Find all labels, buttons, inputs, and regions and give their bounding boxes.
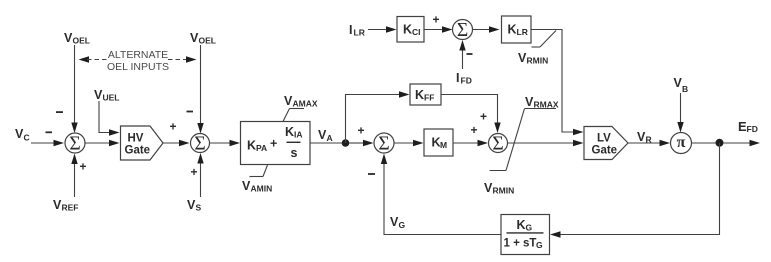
svg-text:Σ: Σ: [194, 133, 205, 154]
svg-text:OEL: OEL: [73, 36, 90, 46]
wire node B to EFD output: [723, 140, 760, 146]
svg-text:G: G: [399, 220, 406, 230]
svg-text:K: K: [403, 23, 412, 37]
wire IFD to S5: [459, 40, 465, 69]
svg-text:RMIN: RMIN: [493, 186, 515, 196]
svg-text:+: +: [357, 124, 364, 138]
svg-text:LV: LV: [597, 133, 611, 145]
svg-text:CI: CI: [412, 27, 421, 37]
minus sign at S3 bottom input: [368, 173, 375, 175]
svg-text:K: K: [415, 88, 424, 102]
wire KM to S4: [453, 140, 488, 146]
dashed alternate-inputs arrow: [79, 56, 197, 62]
svg-text:M: M: [440, 140, 447, 150]
multiplier PI: [671, 133, 692, 154]
wire S4 to LV gate: [508, 140, 584, 146]
limit label VRMIN upper: [518, 31, 556, 66]
minus sign at S1 top input: [56, 111, 63, 113]
wire KLR to LV gate top input: [531, 30, 584, 136]
svg-text:AMAX: AMAX: [293, 99, 318, 109]
svg-text:FD: FD: [747, 124, 758, 134]
limit label VAMIN: [242, 165, 272, 194]
summing junction S5: [453, 20, 473, 41]
node A dot: [342, 139, 350, 147]
summing junction S4: [489, 133, 508, 154]
svg-text:+: +: [270, 137, 277, 151]
wire ILR to KCI: [368, 26, 397, 32]
label VREF: [53, 198, 79, 213]
label VA: [318, 128, 333, 143]
block KFF: [410, 84, 441, 105]
regulator block KPA + KIA/s: [241, 122, 311, 165]
svg-text:REF: REF: [62, 203, 79, 213]
wire VUEL to HV gate: [99, 101, 120, 136]
svg-text:+: +: [79, 160, 86, 174]
wire S3 to KM: [394, 140, 424, 146]
wire S5 to KLR: [473, 26, 500, 32]
svg-text:1 + sT: 1 + sT: [504, 238, 537, 250]
svg-text:s: s: [291, 146, 298, 160]
wire LV gate to PI: [628, 140, 670, 146]
wire KFF to S4 top: [441, 95, 501, 134]
svg-text:Gate: Gate: [125, 145, 151, 157]
svg-text:Σ: Σ: [492, 133, 503, 154]
label VB: [674, 76, 689, 94]
label VOEL right: [190, 31, 216, 46]
wire node A up to KFF: [346, 91, 410, 143]
block KM: [424, 129, 453, 156]
limiter slash VRMAX over VRMIN: [490, 109, 557, 171]
minus sign at S1 left input: [46, 131, 53, 133]
svg-text:K: K: [508, 23, 517, 37]
svg-text:B: B: [682, 84, 688, 94]
wire VOEL left down to S1: [71, 45, 77, 133]
label VOEL left: [64, 31, 90, 46]
LV gate: [584, 127, 628, 160]
svg-text:Σ: Σ: [457, 20, 468, 41]
wire VC to summer S1: [31, 140, 64, 146]
block KLR: [502, 16, 532, 43]
label VUEL: [94, 88, 120, 103]
wire node B down to KG block: [550, 143, 720, 238]
svg-text:UEL: UEL: [103, 93, 120, 103]
label VR: [637, 130, 652, 145]
svg-text:Σ: Σ: [378, 133, 389, 154]
limit label VAMAX: [283, 94, 318, 122]
svg-text:S: S: [196, 203, 202, 213]
limit label VRMAX: [525, 95, 559, 110]
wire VREF to S1: [71, 154, 77, 198]
node B dot: [716, 139, 724, 147]
summing junction S2: [191, 133, 210, 154]
minus sign at S5 bottom input: [467, 53, 473, 55]
summing junction S1: [65, 133, 85, 154]
node VC input label: [15, 127, 30, 143]
svg-text:HV: HV: [128, 133, 144, 145]
wire node A to S3: [349, 140, 374, 146]
label ILR: [349, 23, 365, 38]
svg-text:AMIN: AMIN: [251, 184, 273, 194]
minus sign at S2 top input: [187, 111, 194, 113]
svg-text:LR: LR: [354, 28, 365, 38]
svg-text:RMIN: RMIN: [527, 56, 549, 66]
HV gate: [121, 126, 164, 160]
label EFD: [738, 119, 758, 134]
svg-text:FF: FF: [424, 93, 434, 103]
svg-text:K: K: [285, 125, 294, 139]
wire S2 to KPA block: [210, 140, 241, 146]
wire KCI to S5: [424, 26, 453, 32]
note ALTERNATE OEL INPUTS: [107, 49, 169, 73]
svg-text:I: I: [349, 23, 352, 37]
wire VB to PI: [677, 93, 683, 133]
wire VOEL right down to S2: [197, 45, 203, 134]
svg-text:+: +: [480, 110, 487, 124]
svg-text:+: +: [432, 13, 439, 27]
wire HV gate to S2: [163, 140, 190, 146]
svg-text:OEL INPUTS: OEL INPUTS: [107, 61, 169, 73]
wire KPA to node A: [310, 142, 345, 144]
svg-text:RMAX: RMAX: [534, 100, 559, 110]
block KCI: [397, 17, 424, 43]
svg-text:LR: LR: [517, 27, 528, 37]
summing junction S3: [374, 133, 394, 154]
svg-text:IA: IA: [294, 130, 303, 140]
svg-text:OEL: OEL: [199, 36, 216, 46]
limit label VRMIN lower: [484, 181, 514, 196]
label IFD: [456, 71, 472, 86]
svg-text:C: C: [24, 133, 30, 143]
svg-text:A: A: [327, 133, 333, 143]
svg-text:K: K: [517, 218, 526, 232]
svg-text:+: +: [470, 123, 477, 137]
label VS: [187, 198, 202, 213]
svg-text:+: +: [169, 120, 176, 134]
svg-text:K: K: [247, 139, 256, 153]
svg-text:Gate: Gate: [592, 145, 618, 157]
svg-text:+: +: [190, 165, 197, 179]
svg-text:ALTERNATE: ALTERNATE: [108, 49, 168, 61]
wire S1 to HV gate: [85, 140, 120, 146]
svg-text:π: π: [677, 134, 686, 151]
block KG over 1+sTG: [501, 215, 550, 255]
svg-text:FD: FD: [461, 76, 472, 86]
svg-text:I: I: [456, 71, 459, 85]
svg-text:Σ: Σ: [69, 133, 80, 154]
wire VS to S2: [197, 153, 203, 197]
svg-text:G: G: [536, 240, 543, 250]
svg-text:G: G: [526, 223, 533, 233]
wire PI to node B: [692, 142, 717, 144]
wire KG to S3 bottom: [381, 154, 501, 235]
label VG: [390, 215, 406, 230]
svg-text:PA: PA: [256, 143, 267, 153]
